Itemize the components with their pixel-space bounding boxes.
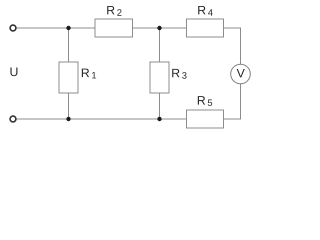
resistor R3 <box>150 62 169 93</box>
resistor R4 <box>187 19 224 37</box>
resistor R1 <box>59 62 78 93</box>
label R2 <box>107 6 121 16</box>
label U <box>10 68 17 77</box>
label V meter <box>237 69 245 77</box>
label R3 <box>172 69 186 79</box>
wire branch through R3 <box>159 28 161 119</box>
wire voltmeter to bottom corner <box>224 84 241 119</box>
wire branch through R1 <box>68 28 70 119</box>
terminal top-left <box>10 25 16 31</box>
label R4 <box>198 6 212 16</box>
resistor R5 <box>187 110 224 128</box>
node junction bottom at R3 <box>157 117 161 121</box>
wire bottom rail <box>16 118 187 120</box>
resistor R2 <box>95 19 133 37</box>
terminal bottom-left <box>10 116 16 122</box>
node junction bottom at R1 <box>66 117 70 121</box>
node junction top at R1 <box>66 26 70 30</box>
wire top rail <box>16 27 95 29</box>
voltmeter V circle <box>231 64 251 84</box>
wire R4 to right corner down to voltmeter <box>224 28 241 64</box>
label R5 <box>198 96 212 106</box>
wire between R2 and R4 <box>133 27 187 29</box>
node junction top at R3 <box>157 26 161 30</box>
label R1 <box>82 69 96 79</box>
